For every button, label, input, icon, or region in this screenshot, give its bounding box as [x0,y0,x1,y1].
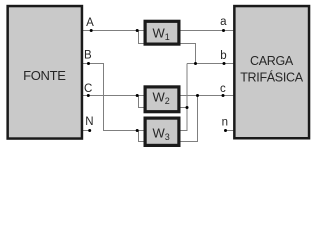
terminal dot n [224,129,227,132]
load box CARGA TRIFASICA [234,6,309,138]
wire a from W1 to load [180,30,234,32]
junction node W2 voltage on vertical [186,106,189,109]
junction node b / W1 voltage [194,62,197,65]
wire C horizontal from FONTE to W2 [83,95,145,97]
wire B voltage tap into W3 lower-left [139,131,145,142]
terminal dot c [222,94,225,97]
svg-text:CARGA: CARGA [250,54,294,68]
terminal dot C [87,94,90,97]
wire vertical b to W3 right [180,64,187,131]
svg-text:FONTE: FONTE [23,68,66,83]
svg-text:B: B [84,49,92,61]
terminal dot A [90,29,93,32]
svg-text:a: a [220,16,227,28]
svg-text:c: c [220,83,226,95]
junction node c / W3 voltage [196,94,199,97]
wire W3 voltage out up to node c [180,96,198,142]
wire C voltage tap into W2 lower-left [139,96,145,108]
junction node C voltage tap [136,94,139,97]
terminal dot B [87,62,90,65]
terminal dot b [223,62,226,65]
wire n stub [226,130,234,132]
svg-text:N: N [85,116,93,128]
wire W1 voltage out to node b [180,44,196,64]
junction node B voltage tap [136,129,139,132]
svg-text:b: b [220,50,226,62]
wattmeter W3 box [145,118,179,145]
svg-text:n: n [222,117,228,129]
wire A horizontal from FONTE to W1 [83,30,145,32]
junction node A voltage tap [136,29,139,32]
source box FONTE [8,6,82,139]
wire c from W2 to load [180,95,234,97]
wire B vertical drop [104,64,145,131]
wire W2 voltage out to vertical [180,107,187,109]
wire B horizontal from FONTE [83,63,105,65]
wire A voltage tap vertical into W1 lower-left [139,31,145,44]
wattmeter W1 box [145,21,179,44]
terminal dot a [222,29,225,32]
wattmeter W2 box [145,87,179,112]
wire b horizontal to load [187,63,234,65]
svg-text:C: C [84,83,92,95]
svg-text:TRIFÁSICA: TRIFÁSICA [240,69,304,84]
terminal dot N [88,129,91,132]
wire N stub [83,130,90,132]
svg-text:A: A [86,17,94,29]
